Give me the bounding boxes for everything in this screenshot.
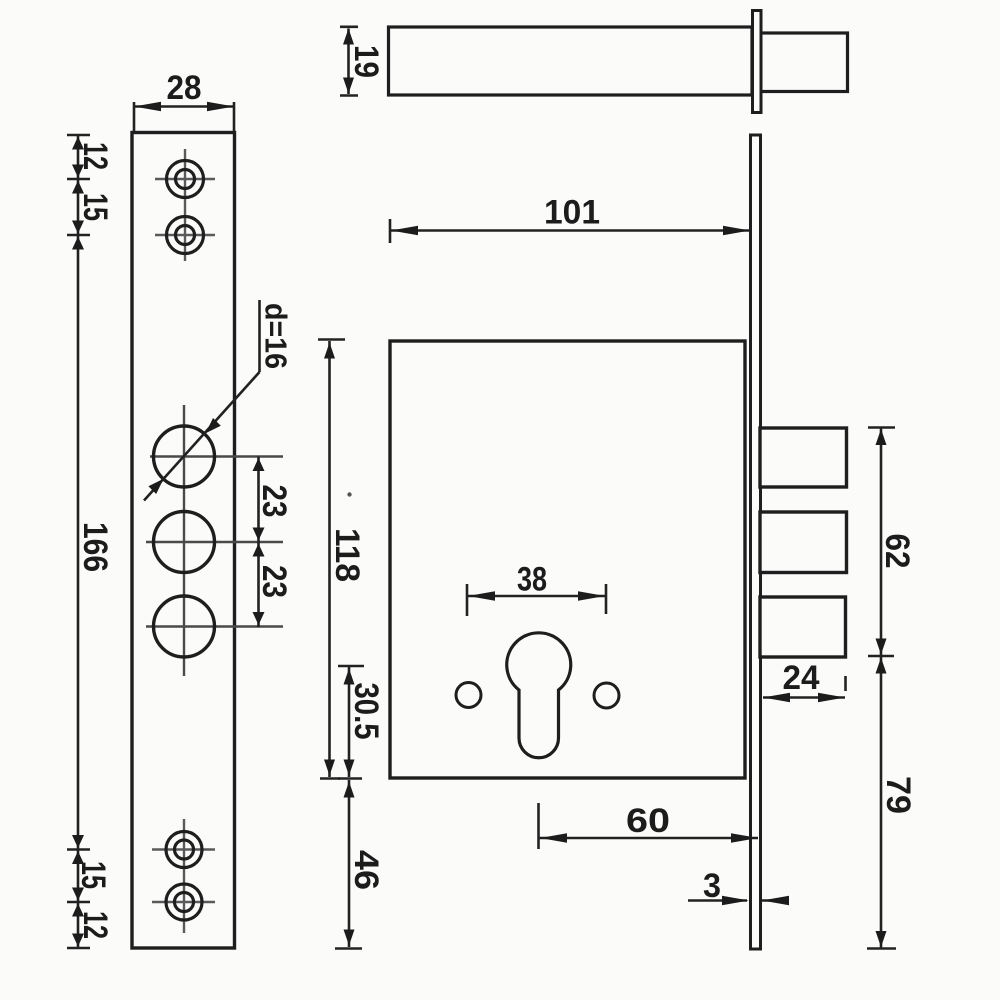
cylinder screw hole right [594, 683, 619, 708]
lock case outline [390, 341, 745, 778]
large hole 2 [154, 512, 215, 573]
faceplate outline [132, 133, 235, 949]
bolt tip beyond forend [761, 33, 848, 92]
dimension 30.5 [338, 666, 364, 779]
svg-text:15: 15 [76, 193, 114, 221]
svg-text:38: 38 [517, 561, 547, 599]
svg-text:118: 118 [328, 528, 366, 582]
dimension 118 [318, 340, 345, 779]
cylinder screw hole left [456, 683, 481, 708]
bolt 3 [760, 597, 846, 657]
dimension 60 (backset) [539, 803, 759, 849]
svg-text:23: 23 [255, 565, 293, 598]
forend top piece [753, 11, 762, 113]
svg-text:23: 23 [255, 485, 293, 518]
dimension 62 [868, 428, 895, 657]
left dimension chain line [67, 135, 90, 948]
svg-text:46: 46 [347, 850, 385, 890]
svg-text:15: 15 [74, 861, 112, 889]
svg-text:19: 19 [347, 45, 385, 78]
dimension 3 (forend thickness) [688, 896, 789, 906]
top screw hole 1 crosshair [155, 149, 215, 261]
forend side view [751, 135, 761, 949]
svg-text:30.5: 30.5 [347, 683, 385, 740]
svg-text:24: 24 [783, 659, 820, 697]
svg-text:d=16: d=16 [259, 303, 294, 369]
svg-text:12: 12 [76, 142, 114, 170]
top screw hole 2 [167, 217, 204, 254]
svg-text:166: 166 [76, 522, 114, 572]
bolt 1 [760, 428, 847, 487]
svg-text:101: 101 [544, 194, 600, 232]
dimension 38 (cylinder fixing holes) [467, 584, 606, 616]
large hole 1 [154, 426, 215, 487]
bottom screw hole 1 [166, 832, 202, 868]
top screw hole 1 [167, 161, 204, 198]
d=16 leader [144, 300, 260, 501]
bottom screw holes crosshairs [152, 819, 215, 933]
dimension 19 (bolt height) [340, 27, 358, 96]
dimension 79 [867, 656, 896, 949]
bolt side view body [389, 27, 753, 95]
dimension 28 (faceplate width) [134, 102, 234, 131]
dimension 24 (bolt throw) [763, 676, 846, 702]
svg-text:62: 62 [878, 534, 916, 569]
svg-text:79: 79 [879, 776, 917, 814]
bottom screw hole 2 [166, 884, 202, 920]
large hole 3 [154, 596, 215, 657]
large holes centerline [146, 405, 283, 676]
dimension 23 pair [253, 457, 265, 628]
euro cylinder keyhole [507, 633, 571, 758]
dimension 46 [335, 780, 362, 949]
svg-text:12: 12 [76, 911, 114, 939]
svg-text:60: 60 [626, 802, 670, 840]
stray dot [347, 492, 351, 496]
bolt 2 [760, 512, 847, 573]
dimension 101 [390, 219, 751, 243]
svg-text:3: 3 [703, 867, 721, 905]
svg-text:28: 28 [167, 69, 202, 107]
